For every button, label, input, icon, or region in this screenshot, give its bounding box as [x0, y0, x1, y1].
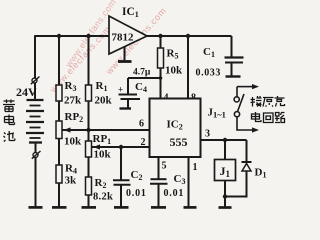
ground bar pin1	[184, 206, 197, 209]
potentiometer RP2 wiper arrow	[62, 127, 72, 132]
node junction J1/D1 bottom	[223, 194, 227, 198]
label RP2 10k	[64, 111, 83, 148]
wire switch bottom	[237, 117, 253, 130]
label C2 0.01	[126, 169, 147, 199]
label 接原充 (to original charging) line 1	[251, 96, 285, 107]
wire C2 upper lead	[120, 147, 122, 180]
wire battery bottom to connector	[35, 143, 37, 153]
svg-text:24V: 24V	[16, 85, 37, 99]
wire to ground J1	[224, 197, 226, 207]
resistor R1	[86, 85, 92, 101]
wire C1 top lead from rail corner	[231, 36, 233, 57]
node junction C4 wire / pin4 column	[159, 76, 163, 80]
label R4 3k	[65, 163, 78, 187]
resistor R3	[56, 85, 62, 101]
resistor R4	[56, 165, 62, 183]
wire R1 column upper	[88, 36, 90, 85]
capacitor C3	[150, 179, 168, 184]
svg-text:2: 2	[141, 137, 146, 148]
wire output rail 7812 to C1 corner	[147, 35, 232, 37]
svg-text:0.01: 0.01	[164, 188, 185, 199]
wire R5 to pin4	[160, 68, 162, 99]
wire battery top drop	[34, 35, 36, 78]
svg-text:10k: 10k	[165, 65, 183, 77]
label C4 plus	[118, 81, 147, 95]
capacitor C4 electrolytic	[119, 78, 141, 108]
label R3 27k	[64, 80, 82, 107]
node junction R3 top rail	[57, 34, 61, 38]
wire C1 lower lead	[231, 63, 233, 76]
wire D1 top lead	[246, 140, 248, 162]
wire R3 to RP2	[58, 101, 60, 121]
label battery 蓄电池 vertical	[3, 100, 15, 142]
svg-text:555: 555	[170, 135, 188, 149]
wire pin8 column	[187, 36, 189, 99]
wire battery top lead	[34, 83, 36, 100]
watermark www.elecfans.com diagonal B	[103, 5, 168, 77]
label C1 0.033	[196, 46, 222, 79]
svg-text:5: 5	[162, 161, 167, 172]
node junction C2 tap on pin2 line	[119, 145, 123, 149]
IC2 555 timer box	[150, 99, 201, 158]
wire pin3 output	[201, 139, 247, 141]
wire pin1 column	[188, 157, 190, 206]
wire R3 column upper	[58, 36, 60, 85]
wire switch top	[236, 87, 238, 97]
svg-text:3: 3	[205, 129, 210, 140]
wire top input rail from battery to 7812	[35, 35, 109, 37]
wire battery bottom lead	[35, 158, 37, 207]
wire R1 to node pin6	[88, 101, 90, 130]
switch J1-1 contacts	[234, 94, 244, 117]
svg-text:27k: 27k	[64, 95, 82, 107]
wire RP2 to R4	[58, 139, 60, 166]
wire J1 bottom lead	[224, 181, 226, 197]
label 电回路 line 2	[252, 112, 285, 123]
watermark www.elecfans.com diagonal C	[63, 0, 118, 70]
label C3 0.01	[164, 173, 186, 199]
svg-text:20k: 20k	[95, 95, 113, 107]
wire R4 to ground	[58, 183, 60, 206]
capacitor C2	[113, 180, 131, 185]
node junction pin8 rail	[186, 34, 190, 38]
svg-text:10k: 10k	[64, 136, 82, 148]
svg-text:+: +	[118, 85, 123, 95]
ground bar 7812	[118, 60, 132, 63]
wire J1 top lead	[224, 140, 226, 160]
connector terminal bottom (circle with slash)	[32, 151, 41, 159]
ground bar R2	[82, 206, 97, 209]
switch J1-1 bottom arrow	[252, 127, 259, 132]
op-amp style regulator U1 7812 triangle	[109, 16, 147, 54]
ground bar battery	[29, 206, 43, 209]
node junction J1 top	[223, 138, 227, 142]
wire pin2 line RP1 wiper to IC2	[92, 146, 150, 148]
svg-text:6: 6	[139, 119, 144, 130]
node junction pin6/R1/RP1	[86, 128, 90, 132]
label RP1 10k	[93, 133, 112, 161]
potentiometer RP1 wiper arrow	[92, 144, 102, 149]
label R1 20k	[95, 80, 113, 107]
ground bar C4	[120, 107, 132, 109]
wire C3 lower lead	[158, 184, 160, 207]
relay coil J1 box	[215, 160, 236, 181]
svg-text:10k: 10k	[94, 149, 112, 161]
potentiometer RP2 body	[56, 121, 62, 139]
svg-text:3k: 3k	[65, 175, 78, 187]
wire RP1 to R2	[88, 157, 90, 177]
label R5 10k	[165, 48, 183, 77]
wire pin6 line RP2 wiper to IC2	[62, 129, 150, 131]
wire C2 lower lead	[120, 185, 122, 207]
svg-text:0.033: 0.033	[196, 68, 222, 79]
svg-text:1: 1	[193, 162, 198, 173]
diode D1	[242, 162, 252, 171]
wire R2 to ground	[88, 195, 90, 206]
wire R5 top lead	[160, 36, 162, 48]
battery B 24V cells	[26, 100, 44, 143]
wire pin5 / C3 upper lead	[158, 157, 160, 179]
resistor R5	[158, 48, 164, 68]
potentiometer RP1 body	[86, 141, 92, 157]
svg-text:7812: 7812	[112, 32, 135, 44]
ground bar C1	[226, 75, 241, 77]
wire 7812 ground stem	[124, 47, 126, 61]
node junction R1 top rail	[86, 34, 90, 38]
label R2 8.2k	[93, 177, 113, 203]
connector terminal top (circle with slash)	[31, 77, 40, 85]
watermark www.elecfans.com diagonal A	[47, 24, 112, 95]
wire node to RP1	[88, 130, 90, 141]
svg-text:8.2k: 8.2k	[93, 192, 113, 203]
resistor R2	[86, 177, 92, 195]
capacitor C1	[225, 58, 244, 63]
node junction R5 rail	[158, 34, 162, 38]
svg-text:0.01: 0.01	[126, 188, 147, 199]
ground bar R4	[52, 206, 67, 209]
switch J1-1 top arrow	[237, 86, 253, 88]
ground bar C3	[151, 206, 166, 209]
ground bar J1	[219, 206, 232, 209]
wire D1 bottom to J1 bottom join	[225, 171, 247, 197]
ground bar C2	[114, 206, 129, 209]
wire C4 top horizontal	[128, 77, 161, 79]
svg-text:4.7µ: 4.7µ	[133, 68, 151, 78]
